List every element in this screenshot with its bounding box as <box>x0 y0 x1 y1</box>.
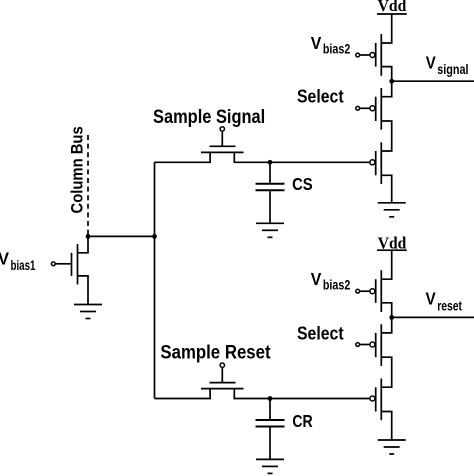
wire Vdd to Vbias2 <box>381 14 391 43</box>
transistor Sample Reset switch <box>155 363 244 399</box>
svg-text:bias2: bias2 <box>323 277 351 293</box>
transistor Vbias2 bottom (PMOS) <box>356 270 381 312</box>
node CS junction <box>268 160 273 165</box>
wire sample-signal drain to CS node and driver gate <box>234 152 369 162</box>
wire Select to driver (top) <box>381 121 391 151</box>
node Vreset label <box>426 289 463 314</box>
svg-text:Select: Select <box>297 86 344 107</box>
node junction column-bus <box>86 234 91 239</box>
wire Vbias2 to Select (bottom) <box>381 303 391 333</box>
node Vbias2 top label <box>311 33 351 57</box>
transistor driver top (gate from CS) <box>370 142 381 184</box>
svg-text:V: V <box>0 248 9 268</box>
transistor Select top (PMOS) <box>356 88 381 130</box>
transistor Vbias1 current source <box>51 236 88 304</box>
svg-text:bias1: bias1 <box>11 257 36 273</box>
wire Vsignal output <box>392 80 474 82</box>
wire column-bus to sampling branch <box>88 235 155 237</box>
capacitor CS <box>256 162 285 223</box>
svg-text:V: V <box>426 289 436 309</box>
wire Vreset output <box>392 316 474 318</box>
transistor Sample Signal switch <box>155 127 244 163</box>
wire driver top to ground <box>381 175 391 203</box>
wire vertical branch bus <box>154 162 156 398</box>
wire Vdd to Vbias2 (bottom) <box>381 250 391 279</box>
svg-text:bias2: bias2 <box>323 41 351 57</box>
wire Select to driver (bottom) <box>381 357 391 387</box>
node junction sampling branch <box>152 234 157 239</box>
svg-text:Sample Signal: Sample Signal <box>153 107 265 128</box>
svg-text:V: V <box>311 269 322 289</box>
svg-text:Select: Select <box>297 323 344 344</box>
node Vsignal label <box>426 53 469 77</box>
wire driver bottom to ground <box>381 412 391 441</box>
svg-text:Vdd: Vdd <box>378 0 407 15</box>
transistor driver bottom (gate from CR) <box>370 379 381 421</box>
power Vdd top rail <box>377 13 407 15</box>
wire column bus (dashed) <box>87 135 89 236</box>
capacitor CR <box>256 399 285 460</box>
svg-text:reset: reset <box>437 297 462 313</box>
svg-text:CS: CS <box>292 174 313 194</box>
wire sample-reset drain to CR node and driver gate <box>234 389 369 399</box>
svg-text:Sample Reset: Sample Reset <box>160 343 271 364</box>
svg-text:CR: CR <box>292 411 313 431</box>
transistor Select bottom (PMOS) <box>356 324 381 366</box>
node Vbias2 bottom label <box>311 269 351 293</box>
svg-text:V: V <box>311 33 322 53</box>
power Vdd bottom rail <box>377 249 407 251</box>
node Vreset junction <box>389 315 394 320</box>
ground CS <box>256 223 284 237</box>
node Vbias1 label <box>0 248 36 273</box>
node Vsignal junction <box>389 79 394 84</box>
transistor Vbias2 top (PMOS) <box>356 34 381 76</box>
ground bottom chain <box>378 440 406 454</box>
wire Vbias2 to Select (top) <box>381 67 391 97</box>
svg-text:signal: signal <box>437 61 468 77</box>
svg-text:V: V <box>426 53 436 73</box>
node CR junction <box>268 396 273 401</box>
ground CR <box>256 459 284 473</box>
svg-text:Column Bus: Column Bus <box>67 126 86 213</box>
ground Vbias1 <box>74 305 102 319</box>
ground top chain <box>378 203 406 217</box>
